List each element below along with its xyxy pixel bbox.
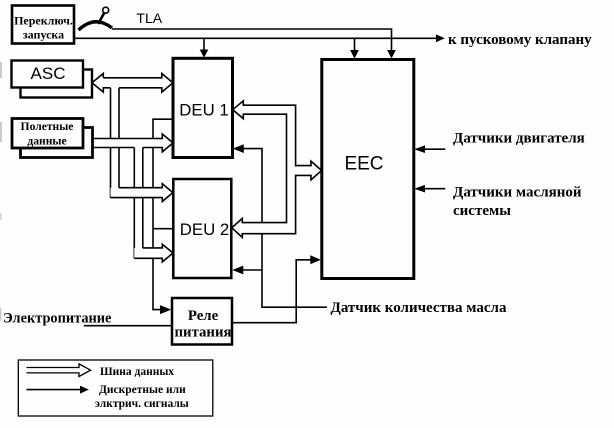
wire oil system sensors arrow into EEC right bbox=[414, 185, 445, 193]
svg-text:TLA: TLA bbox=[136, 10, 162, 26]
box power relay bbox=[172, 298, 232, 345]
bus arrow flight data to DEU1 bbox=[92, 134, 173, 152]
svg-text:к пусковому клапану: к пусковому клапану bbox=[448, 32, 592, 48]
scan artifact marks left edge bbox=[0, 62, 2, 321]
svg-text:питания: питания bbox=[175, 325, 232, 341]
wire W1 DEU1 left to DEU2 left and to power relay bbox=[153, 119, 173, 314]
wire engine sensors arrow into EEC right bbox=[414, 145, 445, 153]
svg-text:Дискретные или: Дискретные или bbox=[99, 384, 186, 396]
box flight data shadow bbox=[21, 128, 93, 158]
bus arrow from T1 into DEU2 upper bbox=[111, 184, 173, 202]
svg-text:DEU 1: DEU 1 bbox=[179, 101, 228, 120]
box DEU1 bbox=[173, 58, 233, 157]
legend discrete signal arrow symbol bbox=[27, 386, 89, 394]
svg-text:данные: данные bbox=[27, 134, 66, 147]
wire W3 power relay to EEC bbox=[232, 255, 321, 322]
wire start-switch to starting valve bbox=[74, 34, 445, 42]
bus arrow from T2 into DEU2 lower bbox=[134, 244, 173, 262]
svg-text:Полетные: Полетные bbox=[21, 120, 74, 133]
legend label discrete signals bbox=[95, 384, 189, 410]
box EEC bbox=[322, 60, 414, 279]
box ASC bbox=[12, 61, 84, 88]
svg-text:EEC: EEC bbox=[344, 154, 383, 175]
box flight data bbox=[12, 119, 83, 149]
box DEU2 bbox=[173, 179, 231, 278]
svg-text:Электропитание: Электропитание bbox=[3, 311, 111, 327]
box legend bbox=[18, 360, 213, 416]
svg-text:запуска: запуска bbox=[23, 28, 64, 42]
svg-text:Датчик количества масла: Датчик количества масла bbox=[331, 300, 507, 316]
svg-text:Датчики масляной: Датчики масляной bbox=[453, 184, 582, 200]
wire W2 oil quantity sensor to DEU1 and DEU2 bbox=[232, 144, 327, 307]
wire TLA line to EEC top bbox=[112, 29, 396, 59]
bus T2 walls from flight-data bus down bbox=[134, 148, 143, 259]
wire branch down to DEU1 top bbox=[200, 38, 209, 58]
wire electric power line into relay bbox=[84, 325, 172, 327]
svg-text:элктрич. сигналы: элктрич. сигналы bbox=[95, 398, 189, 410]
throttle lever symbol bbox=[79, 7, 113, 30]
svg-text:ASC: ASC bbox=[31, 64, 66, 83]
bus right-side loop DEU1 DEU2 EEC bbox=[232, 101, 322, 238]
svg-text:Переключ.: Переключ. bbox=[14, 14, 73, 28]
legend bus arrow symbol bbox=[27, 364, 91, 377]
bus arrow ASC to DEU1 double-headed bbox=[92, 74, 173, 93]
label oil system sensors bbox=[453, 184, 582, 219]
svg-text:Реле: Реле bbox=[188, 308, 219, 324]
svg-text:Шина данных: Шина данных bbox=[100, 366, 174, 378]
box ASC shadow bbox=[21, 70, 93, 98]
svg-text:Датчики двигателя: Датчики двигателя bbox=[453, 130, 585, 146]
bus T1 walls from ASC bus down bbox=[111, 88, 120, 198]
box start switch bbox=[12, 6, 74, 44]
svg-text:DEU 2: DEU 2 bbox=[180, 220, 229, 239]
wire branch down to EEC top bbox=[350, 38, 359, 59]
svg-text:системы: системы bbox=[453, 203, 511, 219]
